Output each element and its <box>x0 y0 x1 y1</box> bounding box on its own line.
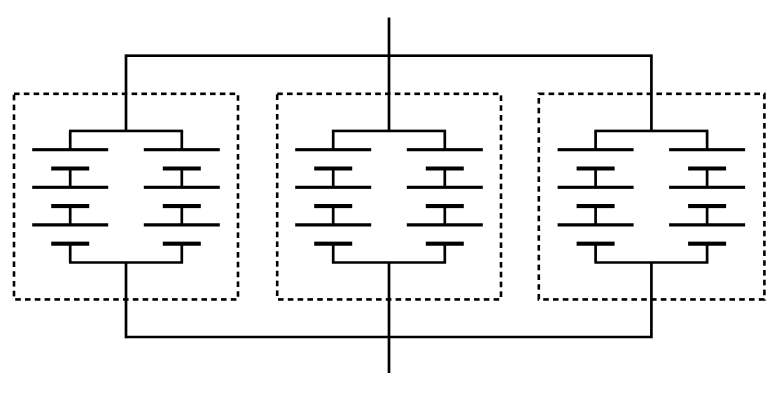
battery cell B2A2 positive plate (long) <box>295 186 371 189</box>
wire: pack P3 internal top rail (node P3+) <box>594 130 708 133</box>
wire: pack P1 internal bottom rail (node P1-) <box>69 261 183 264</box>
wire: string 3B link into cell B3B2 <box>706 169 709 188</box>
wire: string 3B link into cell B3B3 <box>706 206 709 225</box>
wire: pack P2 internal bottom rail (node P2-) <box>332 261 446 264</box>
wire: negative supply lead leaving from bottom <box>388 337 391 373</box>
battery cell B1A1 negative plate (short) <box>51 166 89 170</box>
battery cell B2B2 positive plate (long) <box>407 186 483 189</box>
battery cell B3A2 positive plate (long) <box>558 186 634 189</box>
battery cell B2A3 negative plate (short) <box>314 242 352 246</box>
battery cell B3A1 positive plate (long) <box>558 148 634 151</box>
battery cell B3B2 negative plate (short) <box>688 204 726 208</box>
battery cell B1A3 negative plate (short) <box>51 242 89 246</box>
wire: positive supply lead entering from top <box>388 18 391 56</box>
battery cell B1B1 positive plate (long) <box>144 148 220 151</box>
wire: pack P2 top feed from bus into pack <box>388 54 391 130</box>
wire: string 3A link to internal bottom rail <box>594 244 597 263</box>
battery cell B1A2 negative plate (short) <box>51 204 89 208</box>
battery cell B2B2 negative plate (short) <box>426 204 464 208</box>
wire: bottom bus rail joining all three packs <box>126 336 652 339</box>
battery cell B2A3 positive plate (long) <box>295 223 371 226</box>
battery cell B1B3 positive plate (long) <box>144 223 220 226</box>
wire: string 3A link into cell B3A2 <box>594 169 597 188</box>
battery cell B1B3 negative plate (short) <box>163 242 201 246</box>
battery cell B3A3 negative plate (short) <box>577 242 615 246</box>
wire: string 1A link into cell B1A3 <box>69 206 72 225</box>
battery cell B2B1 positive plate (long) <box>407 148 483 151</box>
wire: pack P1 internal top rail (node P1+) <box>69 130 183 133</box>
wire: pack P2 bottom feed from pack to bus <box>388 263 391 339</box>
battery cell B1B2 negative plate (short) <box>163 204 201 208</box>
wire: string 2A link into cell B2A2 <box>332 169 335 188</box>
battery cell B3A2 negative plate (short) <box>577 204 615 208</box>
battery cell B1B1 negative plate (short) <box>163 166 201 170</box>
battery cell B1B2 positive plate (long) <box>144 186 220 189</box>
wire: string 1B link into cell B1B2 <box>180 169 183 188</box>
wire: string 2B link into cell B2B1 <box>443 131 446 150</box>
wire: string 1A link to internal bottom rail <box>69 244 72 263</box>
battery cell B2A2 negative plate (short) <box>314 204 352 208</box>
wire: pack P3 internal bottom rail (node P3-) <box>594 261 708 264</box>
wire: string 2B link into cell B2B2 <box>443 169 446 188</box>
battery cell B1A1 positive plate (long) <box>32 148 108 151</box>
battery cell B3B2 positive plate (long) <box>669 186 745 189</box>
wire: string 1B link to internal bottom rail <box>180 244 183 263</box>
battery cell B3A1 negative plate (short) <box>577 166 615 170</box>
wire: pack P1 top feed from bus into pack <box>125 54 128 130</box>
wire: string 1A link into cell B1A2 <box>69 169 72 188</box>
battery cell B3A3 positive plate (long) <box>558 223 634 226</box>
battery cell B1A2 positive plate (long) <box>32 186 108 189</box>
wire: string 2A link to internal bottom rail <box>332 244 335 263</box>
wire: string 3B link to internal bottom rail <box>706 244 709 263</box>
wire: pack P3 bottom feed from pack to bus <box>650 263 653 339</box>
wire: pack P1 bottom feed from pack to bus <box>125 263 128 339</box>
wire: string 3A link into cell B3A3 <box>594 206 597 225</box>
battery pack P2 dashed enclosure <box>277 94 501 300</box>
battery cell B2B3 positive plate (long) <box>407 223 483 226</box>
wire: string 2A link into cell B2A1 <box>332 131 335 150</box>
wire: pack P3 top feed from bus into pack <box>650 54 653 130</box>
battery cell B2A1 positive plate (long) <box>295 148 371 151</box>
wire: string 1B link into cell B1B1 <box>180 131 183 150</box>
battery cell B2A1 negative plate (short) <box>314 166 352 170</box>
wire: top bus rail joining all three packs <box>126 54 652 57</box>
battery cell B2B1 negative plate (short) <box>426 166 464 170</box>
wire: string 1A link into cell B1A1 <box>69 131 72 150</box>
battery pack P3 dashed enclosure <box>539 94 765 300</box>
battery cell B3B3 positive plate (long) <box>669 223 745 226</box>
wire: string 2B link to internal bottom rail <box>443 244 446 263</box>
battery pack P1 dashed enclosure <box>14 94 238 300</box>
wire: string 2B link into cell B2B3 <box>443 206 446 225</box>
wire: pack P2 internal top rail (node P2+) <box>332 130 446 133</box>
wire: string 2A link into cell B2A3 <box>332 206 335 225</box>
battery cell B3B1 negative plate (short) <box>688 166 726 170</box>
battery cell B3B3 negative plate (short) <box>688 242 726 246</box>
wire: string 3A link into cell B3A1 <box>594 131 597 150</box>
battery cell B2B3 negative plate (short) <box>426 242 464 246</box>
battery cell B1A3 positive plate (long) <box>32 223 108 226</box>
wire: string 1B link into cell B1B3 <box>180 206 183 225</box>
battery cell B3B1 positive plate (long) <box>669 148 745 151</box>
wire: string 3B link into cell B3B1 <box>706 131 709 150</box>
